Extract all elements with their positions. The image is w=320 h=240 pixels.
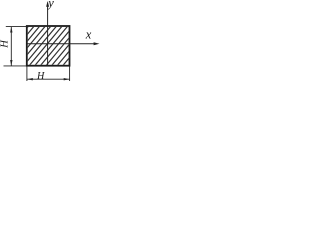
svg-text:H: H bbox=[0, 39, 10, 49]
svg-text:H: H bbox=[36, 71, 45, 82]
left dimension arrow up bbox=[10, 27, 12, 33]
svg-text:y: y bbox=[46, 0, 54, 10]
bottom dimension arrow left bbox=[27, 78, 33, 80]
svg-text:x: x bbox=[85, 28, 92, 42]
left dimension line bbox=[10, 27, 12, 66]
left dimension extension line top bbox=[6, 26, 27, 28]
left dimension extension line bottom bbox=[4, 65, 27, 67]
left dimension arrow down bbox=[10, 60, 12, 66]
y axis bbox=[47, 3, 49, 66]
x axis arrow bbox=[94, 42, 100, 45]
hatching of square section bbox=[0, 26, 101, 72]
bottom dimension extension line right bbox=[69, 66, 71, 81]
bottom dimension arrow right bbox=[64, 78, 70, 80]
y axis arrow bbox=[46, 1, 49, 7]
bottom dimension extension line left bbox=[26, 66, 28, 81]
bottom dimension line bbox=[27, 78, 70, 80]
x axis bbox=[27, 43, 95, 45]
square outline bbox=[27, 26, 70, 66]
